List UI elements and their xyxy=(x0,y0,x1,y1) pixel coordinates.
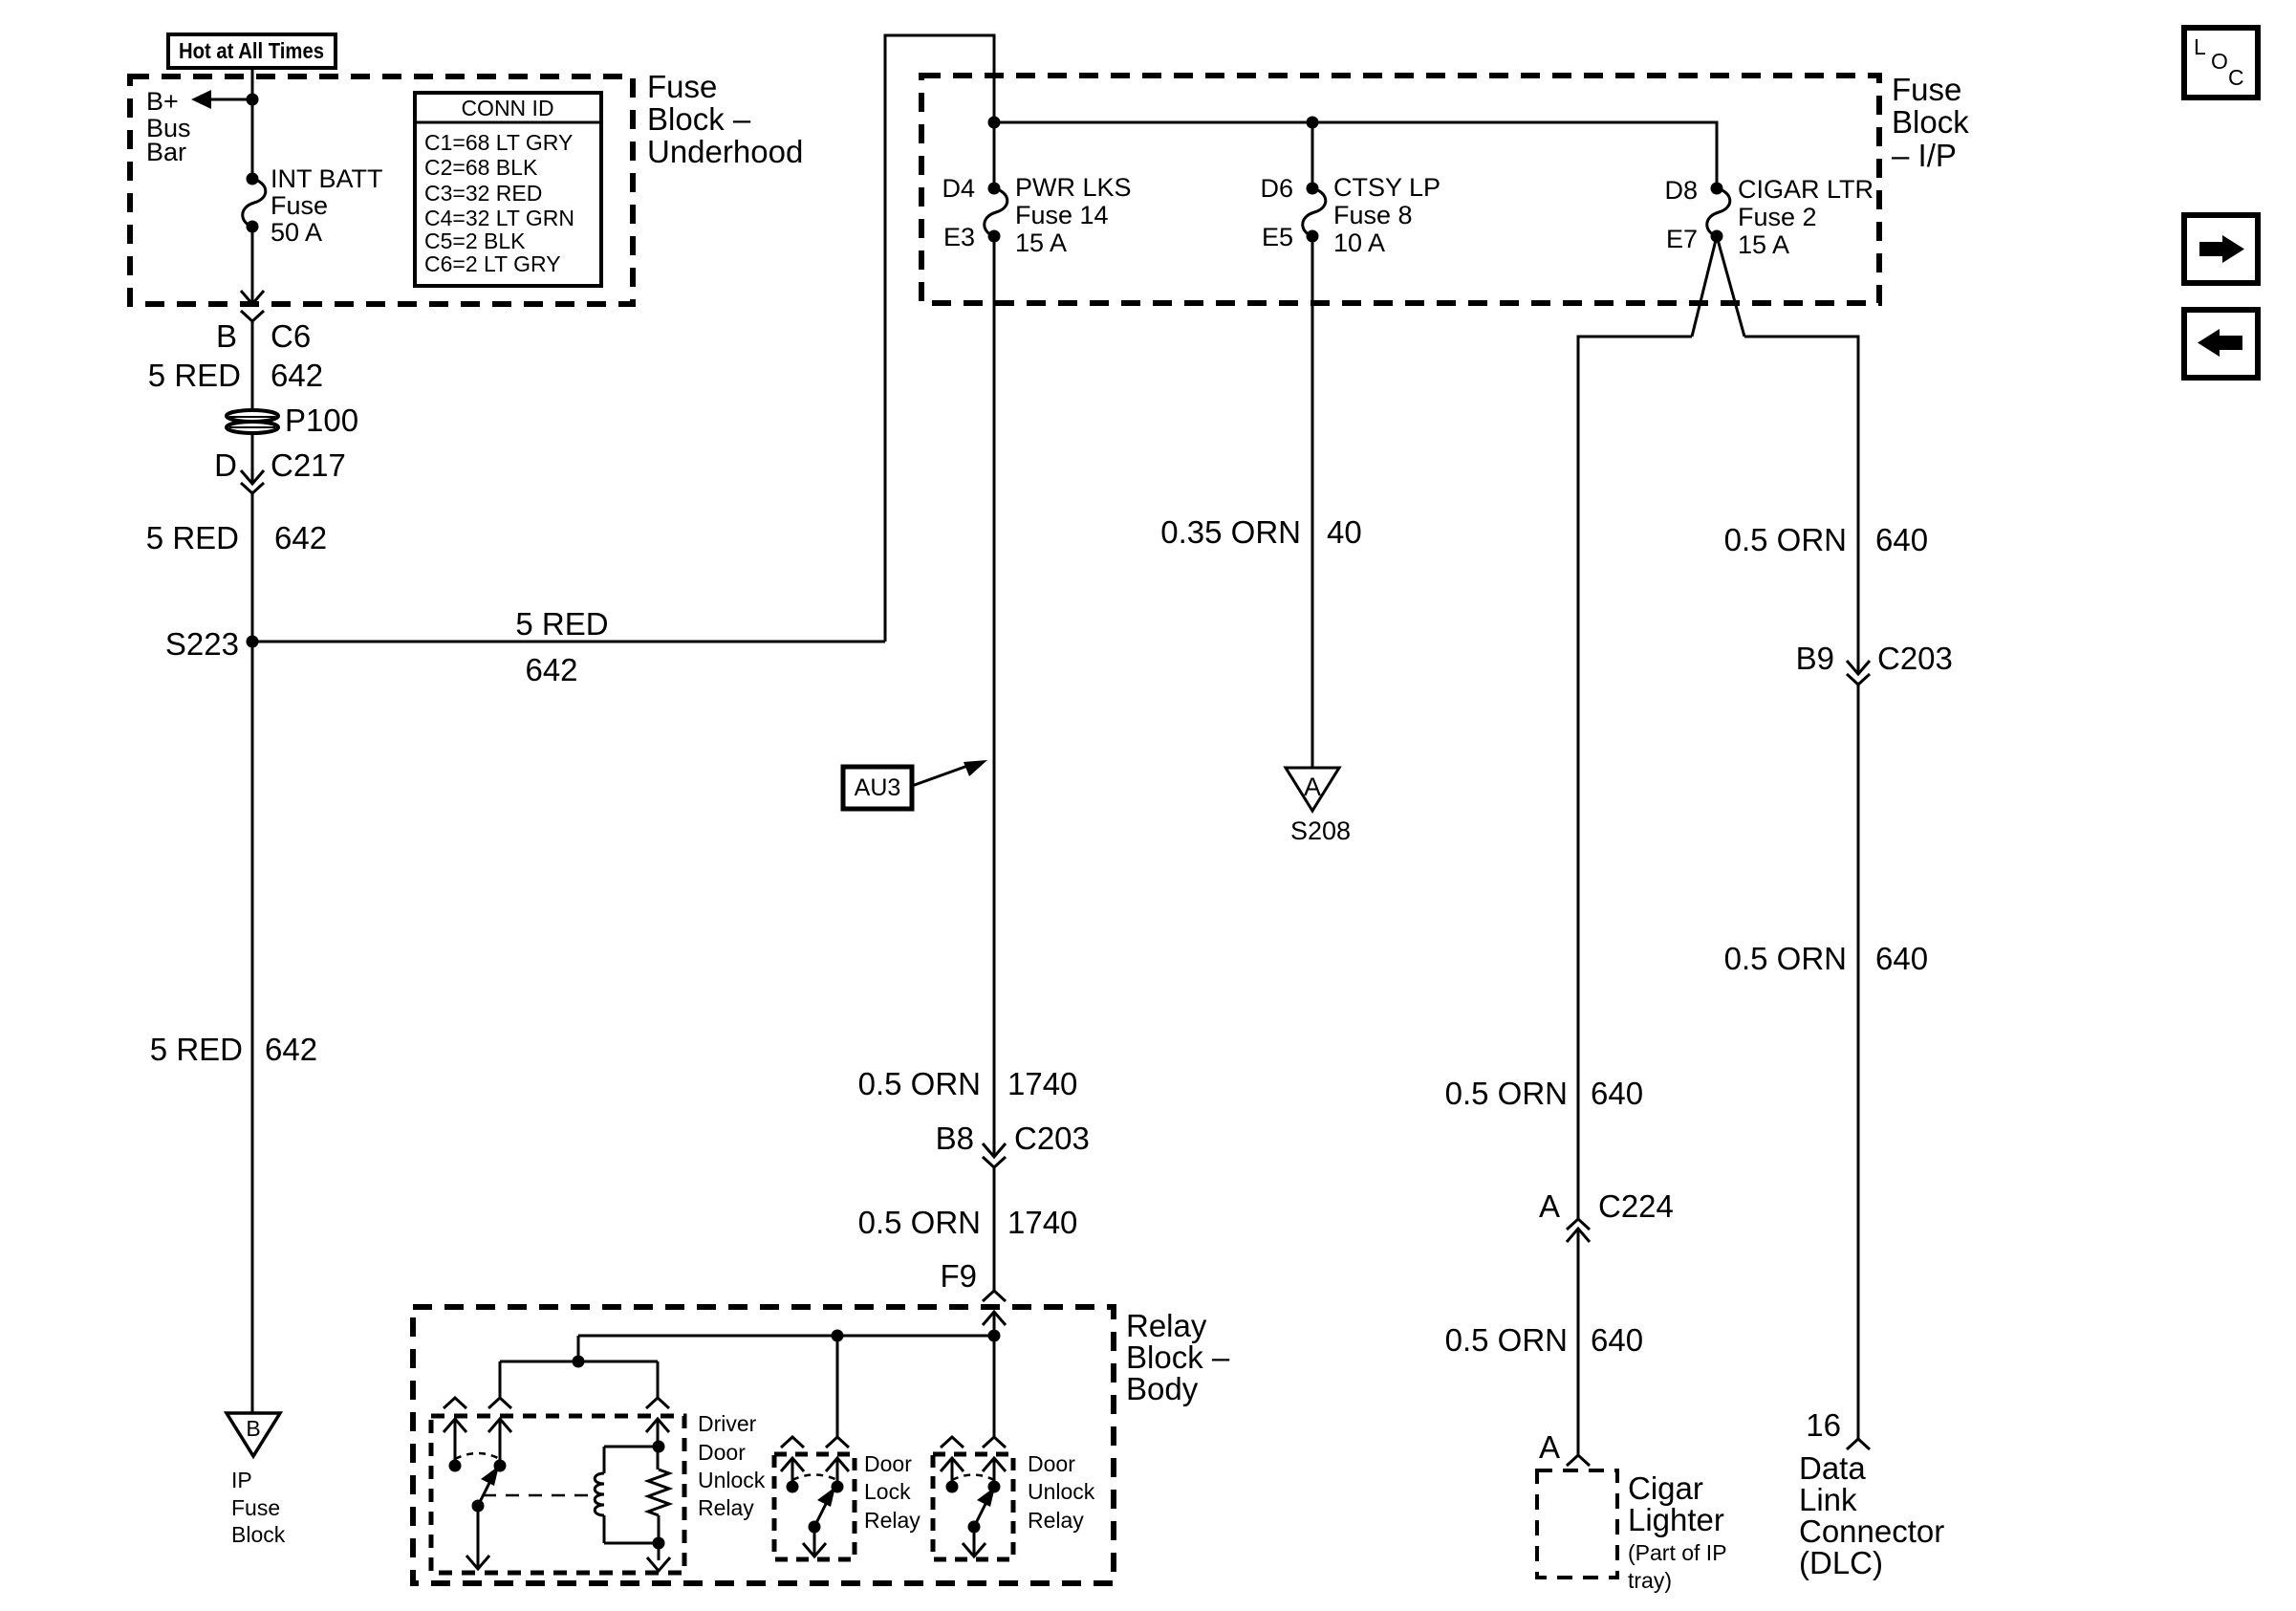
svg-text:Driver: Driver xyxy=(698,1411,757,1436)
svg-text:B: B xyxy=(216,318,237,354)
svg-text:642: 642 xyxy=(274,520,327,555)
svg-text:C6=2 LT GRY: C6=2 LT GRY xyxy=(424,251,561,276)
unlock relay common arrow down xyxy=(963,1527,986,1557)
svg-text:640: 640 xyxy=(1591,1076,1643,1111)
coil linkage dashed line xyxy=(483,1494,600,1497)
svg-text:PWR LKS: PWR LKS xyxy=(1015,173,1132,202)
wire label 0.5 ORN 1740 xyxy=(858,1205,1078,1240)
Driver Door Unlock Relay dashed box xyxy=(431,1416,684,1573)
svg-text:5 RED: 5 RED xyxy=(150,1032,243,1067)
svg-text:C: C xyxy=(2228,65,2244,90)
svg-text:Fuse 8: Fuse 8 xyxy=(1333,201,1413,229)
svg-text:5 RED: 5 RED xyxy=(148,358,241,393)
svg-text:S223: S223 xyxy=(165,626,239,662)
svg-text:Block –: Block – xyxy=(647,101,751,137)
svg-text:0.5 ORN: 0.5 ORN xyxy=(1445,1322,1568,1358)
Fuse Block - Underhood dashed box xyxy=(130,76,633,304)
wire label 0.5 ORN 1740 xyxy=(858,1066,1078,1101)
svg-text:C1=68 LT GRY: C1=68 LT GRY xyxy=(424,130,573,155)
fuse PWR LKS Fuse 14 15 A xyxy=(985,183,1007,243)
bus wires inside relay block xyxy=(500,1336,994,1437)
svg-text:E7: E7 xyxy=(1666,225,1698,253)
svg-text:A: A xyxy=(1539,1429,1560,1465)
svg-text:F9: F9 xyxy=(940,1258,977,1294)
svg-text:E5: E5 xyxy=(1262,223,1293,251)
lock relay common arrow down xyxy=(803,1527,826,1557)
svg-text:C217: C217 xyxy=(271,447,346,483)
svg-text:Fuse 14: Fuse 14 xyxy=(1015,201,1109,229)
svg-text:640: 640 xyxy=(1875,941,1928,976)
node B+ bus bar arrow xyxy=(191,90,259,109)
connector C6 female chevron xyxy=(241,311,264,321)
svg-text:CONN ID: CONN ID xyxy=(461,96,553,120)
Door Lock Relay label xyxy=(864,1451,921,1533)
svg-text:Door: Door xyxy=(1028,1451,1075,1476)
svg-text:S208: S208 xyxy=(1290,816,1351,845)
Hot at All Times box xyxy=(168,34,336,68)
wire label 0.5 ORN 640 xyxy=(1445,1076,1643,1111)
pin B / C6 label xyxy=(216,318,311,354)
svg-text:B+: B+ xyxy=(146,87,179,116)
connector A C224 xyxy=(1567,1219,1590,1242)
svg-text:L: L xyxy=(2194,34,2206,59)
svg-text:Lighter: Lighter xyxy=(1628,1502,1724,1537)
unlock relay terminal 1 xyxy=(941,1458,964,1493)
svg-text:15 A: 15 A xyxy=(1738,230,1789,259)
fuse CIGAR LTR Fuse 2 15 A xyxy=(1707,183,1730,243)
LOC legend box xyxy=(2184,28,2258,98)
svg-text:B8: B8 xyxy=(936,1121,974,1156)
Fuse Block - I/P label xyxy=(1892,72,1969,173)
svg-text:Relay: Relay xyxy=(1126,1308,1207,1343)
driver relay linkage arc xyxy=(455,1453,500,1459)
CTSY LP fuse label xyxy=(1333,173,1440,257)
wire label 0.35 ORN 40 xyxy=(1160,514,1361,550)
svg-text:5 RED: 5 RED xyxy=(515,606,608,642)
wire label 0.5 ORN 640 xyxy=(1724,941,1928,976)
svg-text:1740: 1740 xyxy=(1007,1066,1077,1101)
coil terminal nodes xyxy=(653,1441,665,1550)
svg-text:Fuse: Fuse xyxy=(647,69,717,104)
svg-text:0.5 ORN: 0.5 ORN xyxy=(1724,522,1847,557)
driver relay terminal 2 xyxy=(488,1419,511,1472)
grommet P100 xyxy=(227,410,278,433)
svg-text:0.35 ORN: 0.35 ORN xyxy=(1160,514,1301,550)
right arrow box xyxy=(2184,215,2258,283)
relay resistor xyxy=(646,1419,670,1571)
svg-text:D8: D8 xyxy=(1664,176,1698,205)
Fuse Block - I/P dashed box xyxy=(921,76,1879,303)
junction nodes xyxy=(573,1330,1001,1368)
svg-text:642: 642 xyxy=(265,1032,317,1067)
svg-text:D: D xyxy=(214,447,237,483)
svg-text:C224: C224 xyxy=(1598,1188,1674,1224)
wire fuse to box edge xyxy=(251,227,254,304)
svg-text:Bar: Bar xyxy=(146,138,186,166)
svg-text:640: 640 xyxy=(1591,1322,1643,1358)
lock relay switch blade xyxy=(809,1487,836,1534)
lock relay terminal 1 xyxy=(781,1458,804,1493)
svg-text:642: 642 xyxy=(271,358,323,393)
svg-text:D6: D6 xyxy=(1260,174,1293,203)
Driver Door Unlock Relay label xyxy=(698,1411,766,1520)
svg-text:Data: Data xyxy=(1799,1450,1866,1486)
wire E5 down to ground xyxy=(1311,236,1314,768)
pin D8 / E7 labels xyxy=(1664,176,1698,253)
driver relay common arrow down xyxy=(466,1506,489,1569)
svg-text:Underhood: Underhood xyxy=(647,134,803,169)
svg-text:Block: Block xyxy=(231,1522,286,1547)
wire S223 horizontal xyxy=(252,641,885,643)
wire label 0.5 ORN 640 xyxy=(1724,522,1928,557)
svg-text:A: A xyxy=(1539,1188,1560,1224)
svg-text:Connector: Connector xyxy=(1799,1513,1944,1549)
svg-text:0.5 ORN: 0.5 ORN xyxy=(1445,1076,1568,1111)
svg-text:10 A: 10 A xyxy=(1333,229,1385,257)
svg-text:Unlock: Unlock xyxy=(1028,1479,1095,1504)
pin D / C217 label xyxy=(214,447,346,483)
unlock relay linkage arc xyxy=(952,1475,994,1481)
Data Link Connector label xyxy=(1799,1450,1944,1580)
fuse CTSY LP Fuse 8 10 A xyxy=(1303,183,1326,243)
svg-text:Lock: Lock xyxy=(864,1479,911,1504)
svg-text:B9: B9 xyxy=(1796,641,1834,676)
svg-text:C6: C6 xyxy=(271,318,311,354)
relay coil xyxy=(595,1447,659,1543)
svg-text:Hot at All Times: Hot at All Times xyxy=(179,38,324,63)
driver relay terminal 1 xyxy=(444,1419,466,1472)
lock relay terminal 2 xyxy=(826,1458,849,1493)
Fuse Block - Underhood label xyxy=(647,69,803,169)
svg-text:Fuse 2: Fuse 2 xyxy=(1738,203,1817,231)
svg-text:Relay: Relay xyxy=(1028,1508,1084,1533)
svg-text:Block: Block xyxy=(1892,104,1969,140)
wire label 5 RED 642 xyxy=(146,520,327,555)
svg-text:(Part of IP: (Part of IP xyxy=(1628,1540,1727,1565)
wire C217 to S223 to IP triangle xyxy=(251,493,254,1412)
A / C224 label xyxy=(1539,1188,1674,1224)
connector chevron F9 xyxy=(983,1291,1006,1301)
svg-text:Relay: Relay xyxy=(864,1508,921,1533)
wire E3 down to relay block xyxy=(993,236,996,1157)
wire label 0.5 ORN 640 xyxy=(1445,1322,1643,1358)
svg-text:C5=2 BLK: C5=2 BLK xyxy=(424,229,526,253)
Door Lock Relay dashed box xyxy=(774,1454,855,1559)
PWR LKS fuse label xyxy=(1015,173,1132,257)
lock relay linkage arc xyxy=(792,1475,837,1481)
svg-text:A: A xyxy=(1304,773,1321,801)
Door Unlock Relay dashed box xyxy=(933,1454,1013,1559)
B9 / C203 label xyxy=(1796,641,1953,676)
svg-text:AU3: AU3 xyxy=(855,774,901,801)
left arrow box xyxy=(2184,310,2258,378)
IP Fuse Block triangle B xyxy=(227,1413,280,1456)
svg-text:P100: P100 xyxy=(285,403,358,438)
svg-text:tray): tray) xyxy=(1628,1568,1672,1593)
connector C6 male arrow at box edge xyxy=(241,291,264,304)
IP Fuse Block label xyxy=(231,1468,286,1547)
wire label 5 RED 642 xyxy=(148,358,323,393)
svg-text:15 A: 15 A xyxy=(1015,229,1067,257)
svg-text:C4=32 LT GRN: C4=32 LT GRN xyxy=(424,206,574,230)
Cigar Lighter dashed box xyxy=(1537,1470,1617,1578)
terminal chevrons above lock/unlock relays xyxy=(781,1437,1006,1448)
unlock relay switch blade xyxy=(968,1487,996,1534)
svg-text:C3=32 RED: C3=32 RED xyxy=(424,181,542,206)
svg-text:Door: Door xyxy=(864,1451,912,1476)
svg-text:IP: IP xyxy=(231,1468,252,1492)
connector B9 C203 xyxy=(1847,661,1870,685)
svg-text:1740: 1740 xyxy=(1007,1205,1077,1240)
Cigar Lighter label xyxy=(1628,1470,1727,1593)
CIGAR LTR fuse label xyxy=(1738,175,1874,259)
svg-text:CTSY LP: CTSY LP xyxy=(1333,173,1440,202)
wire bus to CTSY fuse xyxy=(1311,122,1314,188)
terminal chevrons above driver relay xyxy=(444,1398,669,1408)
B8 / C203 label xyxy=(936,1121,1090,1156)
svg-text:B: B xyxy=(246,1416,260,1441)
svg-text:0.5 ORN: 0.5 ORN xyxy=(858,1205,981,1240)
svg-text:C203: C203 xyxy=(1877,641,1953,676)
svg-text:CIGAR LTR: CIGAR LTR xyxy=(1738,175,1874,204)
AU3 callout box xyxy=(843,767,912,809)
svg-text:50 A: 50 A xyxy=(271,218,322,247)
svg-text:O: O xyxy=(2211,49,2228,74)
Relay Block - Body dashed box xyxy=(413,1307,1114,1583)
B+ Bus Bar label xyxy=(146,87,191,166)
connector B8 C203 xyxy=(983,1143,1006,1167)
svg-text:Body: Body xyxy=(1126,1371,1199,1406)
wire label 5 RED 642 xyxy=(150,1032,317,1067)
connector chevron at DLC xyxy=(1847,1439,1870,1449)
fuse INT BATT 50 A xyxy=(243,173,266,233)
connector chevron at cigar lighter xyxy=(1567,1455,1590,1466)
svg-text:C203: C203 xyxy=(1014,1121,1090,1156)
pin D4 / E3 labels xyxy=(942,174,975,251)
svg-text:40: 40 xyxy=(1327,514,1362,550)
svg-text:Door: Door xyxy=(698,1440,746,1465)
svg-text:(DLC): (DLC) xyxy=(1799,1545,1883,1580)
driver relay switch blade xyxy=(472,1466,500,1513)
splice S223 xyxy=(165,626,259,662)
svg-text:640: 640 xyxy=(1875,522,1928,557)
svg-text:5 RED: 5 RED xyxy=(146,520,239,555)
INT BATT fuse label xyxy=(271,164,383,247)
svg-text:C2=68 BLK: C2=68 BLK xyxy=(424,155,538,180)
svg-text:Cigar: Cigar xyxy=(1628,1470,1703,1506)
CONN ID table xyxy=(415,93,601,286)
svg-text:0.5 ORN: 0.5 ORN xyxy=(858,1066,981,1101)
svg-text:E3: E3 xyxy=(943,223,975,251)
ground G A xyxy=(1286,768,1339,811)
Relay Block - Body label xyxy=(1126,1308,1230,1406)
connector C217 female chevron xyxy=(241,483,264,493)
svg-text:Fuse: Fuse xyxy=(1892,72,1961,107)
svg-text:Fuse: Fuse xyxy=(271,191,328,220)
svg-text:16: 16 xyxy=(1806,1407,1841,1443)
wire up and over to PWR LKS fuse xyxy=(885,35,994,642)
svg-text:Link: Link xyxy=(1799,1482,1857,1517)
wire P100 to C217 xyxy=(251,433,254,484)
Door Unlock Relay label xyxy=(1028,1451,1095,1533)
svg-text:– I/P: – I/P xyxy=(1892,138,1957,173)
wire split V from E7 xyxy=(1578,236,1858,1455)
wire C6 to P100 xyxy=(251,321,254,411)
pin D6 / E5 labels xyxy=(1260,174,1293,251)
bus wire inside I/P block xyxy=(988,117,1718,189)
wire from Hot box to INT BATT fuse xyxy=(251,68,254,179)
svg-text:Block –: Block – xyxy=(1126,1339,1230,1375)
svg-text:Relay: Relay xyxy=(698,1495,754,1520)
connector C217 male arrow xyxy=(241,470,264,484)
svg-text:0.5 ORN: 0.5 ORN xyxy=(1724,941,1847,976)
svg-text:Unlock: Unlock xyxy=(698,1468,766,1492)
wire label 5 RED / 642 xyxy=(515,606,608,687)
svg-text:D4: D4 xyxy=(942,174,975,203)
svg-text:Fuse: Fuse xyxy=(231,1495,280,1520)
unlock relay terminal 2 xyxy=(983,1458,1006,1493)
svg-text:INT BATT: INT BATT xyxy=(271,164,383,193)
AU3 arrow xyxy=(912,760,987,786)
svg-text:642: 642 xyxy=(525,652,577,687)
F9 entry arrow xyxy=(983,1312,1006,1336)
